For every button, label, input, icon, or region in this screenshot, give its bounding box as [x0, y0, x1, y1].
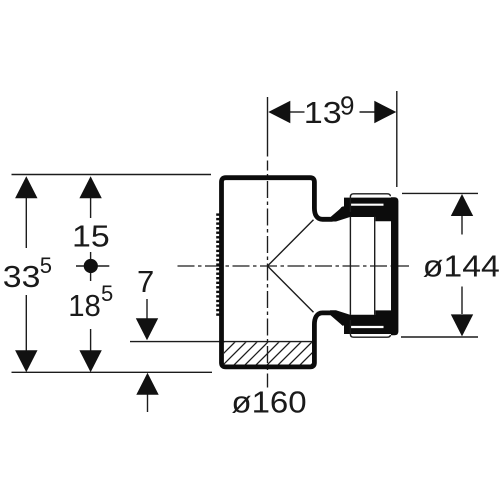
- svg-text:7: 7: [137, 264, 154, 299]
- svg-text:15: 15: [72, 219, 110, 254]
- svg-text:9: 9: [340, 91, 354, 121]
- svg-text:ø144: ø144: [423, 249, 500, 284]
- svg-text:18: 18: [68, 288, 101, 323]
- svg-text:5: 5: [101, 281, 113, 306]
- svg-text:5: 5: [40, 253, 52, 278]
- svg-text:ø160: ø160: [231, 385, 306, 420]
- svg-text:13: 13: [304, 95, 342, 130]
- svg-text:33: 33: [3, 259, 41, 294]
